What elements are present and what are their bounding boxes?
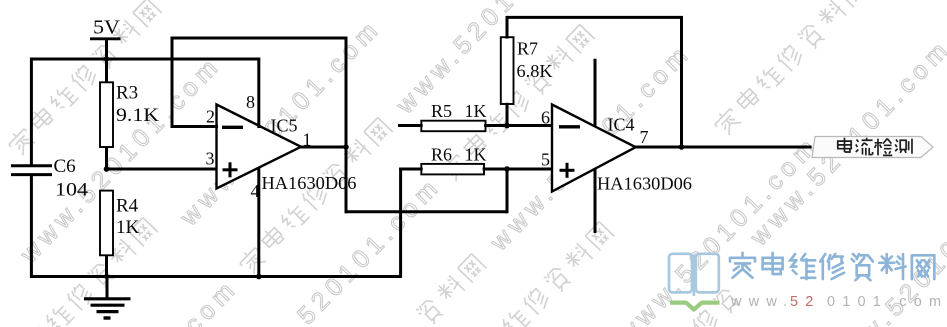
wire left rail top [30, 58, 33, 166]
wire R5 left stub [398, 124, 423, 127]
svg-text:52: 52 [790, 294, 821, 310]
svg-text:3: 3 [206, 149, 215, 169]
junction R7/R5 node [504, 123, 510, 129]
IC5 pin 8 label [246, 92, 255, 112]
op-amp U-IC4 [552, 105, 636, 192]
R4 value label [116, 196, 140, 239]
C6 value label [54, 156, 89, 201]
svg-text:IC5: IC5 [271, 116, 298, 136]
IC4 pin 6 label [541, 108, 550, 128]
ground [84, 277, 131, 319]
wire R4 to ground rail [105, 255, 108, 278]
power 5V symbol [90, 39, 121, 83]
svg-text:5: 5 [541, 150, 550, 170]
logo book icon [669, 254, 720, 310]
svg-text:1K: 1K [465, 101, 487, 121]
IC4 pin 7 label [640, 127, 649, 147]
IC5 pin 3 label [206, 149, 215, 169]
IC5 part number HA1630D06 [262, 173, 357, 193]
svg-text:7: 7 [640, 127, 649, 147]
junction node R3/R4 [104, 166, 110, 172]
wire IC4 output [634, 146, 812, 149]
R3 value label [116, 83, 159, 127]
junction IC4 output [679, 144, 685, 150]
svg-text:HA1630D06: HA1630D06 [262, 173, 357, 193]
wire R6 left [399, 168, 423, 171]
svg-text:6.8K: 6.8K [517, 61, 553, 81]
junction pin4 ground [256, 274, 262, 280]
svg-text:8: 8 [246, 92, 255, 112]
wire R5 to pin 6 [484, 124, 553, 127]
wire IC4 bottom pin [594, 169, 597, 233]
op-amp U-IC5 [217, 105, 302, 189]
svg-text:R4: R4 [116, 196, 139, 217]
svg-text:IC4: IC4 [608, 115, 635, 135]
logo url www.520101.com [730, 294, 947, 310]
IC5 pin 4 label [251, 181, 260, 201]
wire pin 2 [171, 125, 218, 128]
wire pin 4 [257, 167, 260, 278]
wire R6 to pin 5 [483, 168, 554, 171]
wire output across [345, 210, 509, 213]
wire R6 left down to rail [399, 168, 402, 278]
junction R4 ground [104, 274, 109, 279]
svg-text:1K: 1K [116, 217, 140, 238]
svg-text:6: 6 [541, 108, 550, 128]
resistor R5 [421, 121, 485, 132]
wire pin 8 [257, 58, 260, 128]
wire up to pin5 node [506, 168, 509, 214]
svg-text:R7: R7 [517, 39, 538, 59]
resistor R4 [100, 191, 113, 256]
svg-text:1K: 1K [465, 145, 487, 165]
resistor R3 [100, 82, 113, 147]
label 5V [93, 17, 121, 39]
svg-text:www.: www. [730, 294, 794, 310]
wire top rail to pin8 [30, 58, 260, 61]
junction IC5 output [343, 144, 349, 150]
IC4 part number HA1630D06 [597, 174, 692, 194]
wire IC5 output [299, 146, 347, 149]
logo site name 家电维修资料网 [730, 253, 934, 281]
svg-text:R3: R3 [116, 83, 138, 104]
wire ground rail [30, 275, 401, 278]
wire IC4 feedback [506, 16, 683, 148]
R5 value label [431, 101, 487, 121]
wire left rail bottom [30, 175, 33, 278]
wire R7 bottom stub [506, 103, 509, 127]
svg-text:2: 2 [206, 107, 215, 127]
svg-text:104: 104 [55, 180, 89, 201]
wire R7 top stub [506, 16, 509, 39]
wire IC5 feedback [171, 37, 348, 149]
svg-text:R6: R6 [431, 145, 452, 165]
resistor R7 [501, 37, 514, 104]
wire IC4 top pin [594, 59, 597, 127]
svg-text:5V: 5V [93, 17, 121, 39]
svg-text:0101.com: 0101.com [827, 294, 947, 310]
IC4 label [608, 115, 635, 135]
svg-text:HA1630D06: HA1630D06 [597, 174, 692, 194]
IC5 pin 2 label [206, 107, 215, 127]
wire output down [345, 146, 348, 214]
IC5 pin 1 label [303, 130, 312, 150]
svg-text:C6: C6 [54, 156, 76, 177]
R7 value label [517, 39, 553, 82]
wire R3 to node [105, 147, 108, 171]
R6 value label [431, 145, 487, 165]
junction 5V node [104, 56, 110, 62]
wire pin 3 [105, 168, 218, 171]
resistor R6 [421, 164, 484, 175]
IC4 pin 5 label [541, 150, 550, 170]
svg-text:9.1K: 9.1K [116, 105, 159, 126]
capacitor C6 [11, 166, 52, 175]
junction pin5 node [504, 166, 510, 172]
net flag 电流检测 [812, 137, 933, 158]
IC5 label [271, 116, 298, 136]
svg-text:R5: R5 [431, 101, 452, 121]
